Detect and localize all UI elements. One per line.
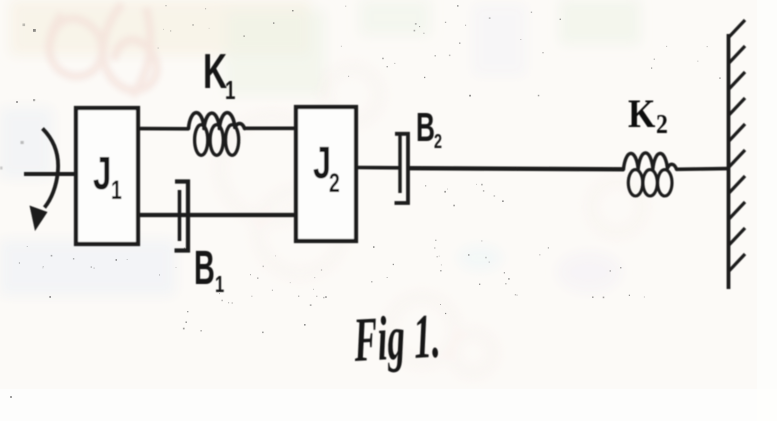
spring K2: [624, 153, 730, 196]
damper B1: [137, 182, 297, 251]
svg-text:J: J: [93, 149, 111, 199]
label J1: [93, 149, 122, 205]
label B2: [416, 105, 442, 152]
svg-text:Fig 1.: Fig 1.: [351, 302, 441, 376]
svg-text:K: K: [203, 44, 227, 99]
svg-text:2: 2: [329, 168, 340, 198]
svg-text:1: 1: [111, 175, 122, 205]
svg-text:B: B: [416, 105, 435, 150]
label J2: [313, 139, 340, 198]
wall: [729, 20, 746, 289]
svg-text:1: 1: [215, 272, 224, 297]
svg-text:K: K: [628, 92, 655, 137]
svg-text:B: B: [194, 242, 215, 295]
label K1: [203, 44, 235, 105]
spring K1: [137, 113, 297, 156]
inertia J2: [296, 107, 356, 241]
svg-text:2: 2: [656, 109, 668, 140]
svg-text:2: 2: [434, 130, 442, 153]
inertia J1: [76, 108, 138, 244]
label B1: [194, 242, 224, 298]
damper B2: [356, 134, 408, 203]
label K2: [628, 92, 668, 139]
svg-text:1: 1: [225, 75, 235, 105]
shaft line J2 wall: [409, 168, 624, 169]
torque input arrow: [30, 129, 59, 232]
input shaft line: [24, 172, 77, 176]
